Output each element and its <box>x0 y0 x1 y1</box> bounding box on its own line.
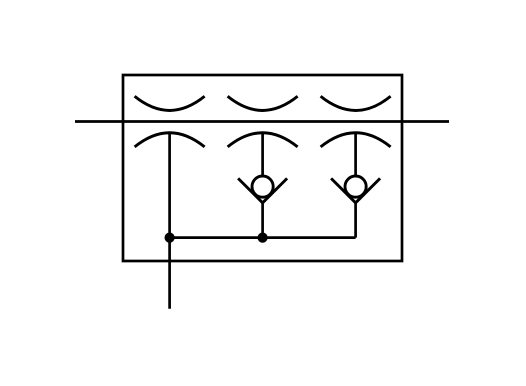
wire: suction cup 3 stem <box>354 133 357 176</box>
workpiece surface line <box>75 120 449 123</box>
wire: check valve 2 to manifold <box>354 202 357 237</box>
suction cup 2 <box>228 133 298 147</box>
junction at check valve 1 branch <box>258 233 268 243</box>
wire: manifold <box>170 236 356 239</box>
wire: suction cup 2 stem <box>261 133 264 176</box>
junction at cup 1 / outlet <box>165 233 175 243</box>
workpiece arc 1 <box>135 96 205 110</box>
suction cup 1 <box>135 133 205 147</box>
check valve 2 seat <box>331 178 380 202</box>
check valve 1 (circle) <box>252 176 273 197</box>
suction cup 3 <box>321 133 391 147</box>
wire: suction cup 1 stem to outlet <box>168 133 171 309</box>
wire: check valve 1 to manifold <box>261 202 264 237</box>
workpiece arc 2 <box>228 96 298 110</box>
workpiece arc 3 <box>321 96 391 110</box>
check valve 2 (circle) <box>345 176 366 197</box>
check valve 1 seat <box>238 178 287 202</box>
enclosure rectangle (gripper body) <box>123 75 402 261</box>
